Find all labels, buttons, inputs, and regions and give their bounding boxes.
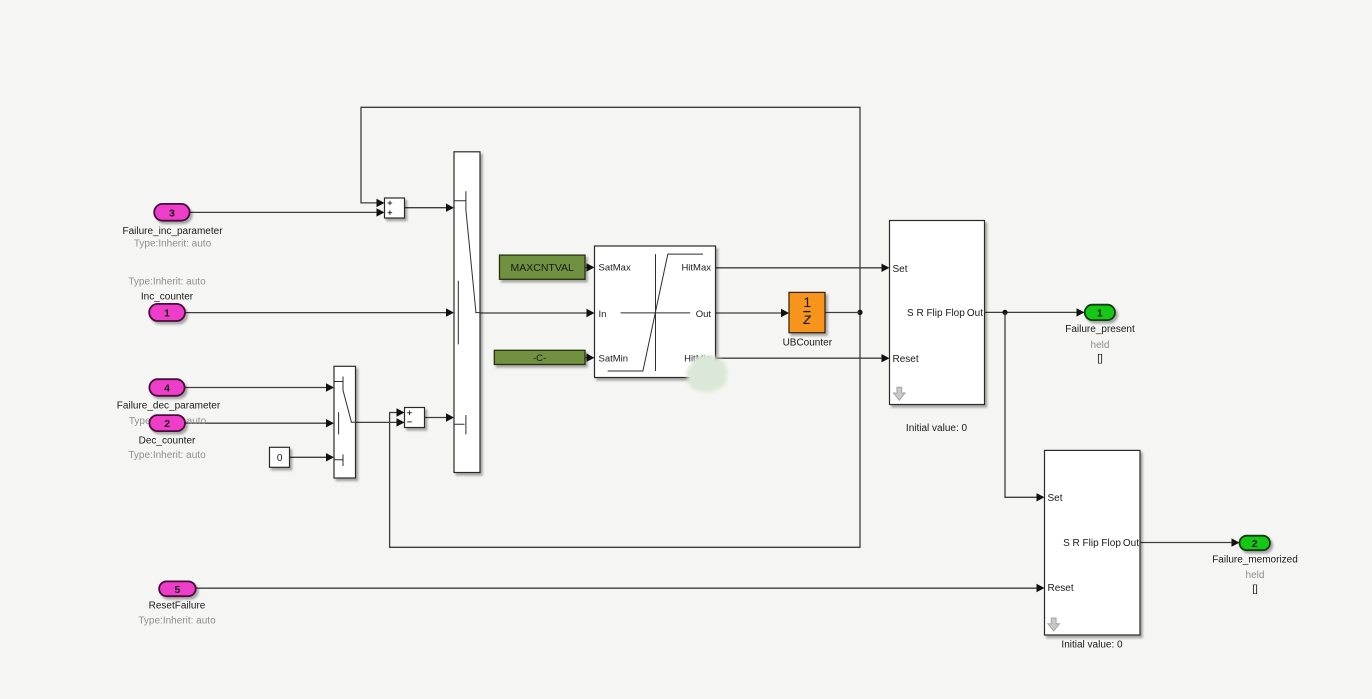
svg-text:2: 2 <box>164 418 170 430</box>
wire: Failure_inc_parameter to Sum1 input 2 <box>190 208 385 216</box>
wire: MAXCNTVAL to SatMax <box>585 263 595 271</box>
svg-text:SatMin: SatMin <box>599 354 629 365</box>
svg-text:In: In <box>599 309 607 320</box>
svg-text:Inc_counter: Inc_counter <box>141 291 194 302</box>
S R Flip Flop block 1 <box>890 221 985 434</box>
unit delay block UBCounter <box>783 292 833 348</box>
svg-text:5: 5 <box>174 584 180 596</box>
wire: Failure_dec_parameter to small Switch input 1 <box>185 383 334 391</box>
inport 2 <box>149 415 185 431</box>
svg-text:4: 4 <box>164 383 170 395</box>
svg-text:MAXCNTVAL: MAXCNTVAL <box>510 262 574 274</box>
constant block MAXCNTVAL <box>500 255 586 279</box>
wire: feedback bottom (UBCounter out to Sum2 input 1) <box>390 312 860 547</box>
watermark cloud blob <box>687 355 728 392</box>
svg-text:held: held <box>1246 570 1265 581</box>
wire: UBCounter out to junction <box>825 312 860 314</box>
svg-text:Failure_present: Failure_present <box>1065 324 1135 335</box>
wire: feedback top (UBCounter out to Sum1 input 1) <box>361 107 860 312</box>
svg-text:Initial value: 0: Initial value: 0 <box>906 423 968 434</box>
svg-text:S R Flip Flop: S R Flip Flop <box>907 308 965 319</box>
svg-text:[]: [] <box>1097 353 1103 364</box>
wire: Sum1 out to big Switch input 1 <box>405 204 455 212</box>
svg-text:0: 0 <box>277 453 283 464</box>
svg-text:1: 1 <box>803 294 811 310</box>
saturation dynamic block U1 <box>595 246 716 378</box>
svg-text:3: 3 <box>169 207 175 219</box>
svg-text:-C-: -C- <box>533 353 546 364</box>
svg-text:[]: [] <box>1252 584 1258 595</box>
constant block 0 <box>270 447 290 467</box>
switch block small (Switch2) <box>334 366 356 478</box>
svg-text:Type:Inherit: auto: Type:Inherit: auto <box>128 276 206 287</box>
inport 5 <box>159 581 196 596</box>
svg-text:Reset: Reset <box>1048 583 1074 594</box>
svg-text:Failure_dec_parameter: Failure_dec_parameter <box>117 401 221 412</box>
S R Flip Flop block 2 <box>1045 450 1141 650</box>
wire: SRFlipFlop2 Out to Failure_memorized <box>1140 538 1240 546</box>
svg-text:ResetFailure: ResetFailure <box>149 600 206 611</box>
inport 3 <box>154 204 189 221</box>
svg-text:Dec_counter: Dec_counter <box>139 436 196 447</box>
svg-text:Out: Out <box>967 308 983 319</box>
svg-text:SatMax: SatMax <box>599 263 631 274</box>
svg-text:Set: Set <box>893 264 908 275</box>
junction (flip flop 1 output node) <box>1002 310 1007 315</box>
wire: Sum2 out to big Switch input 3 <box>425 413 455 421</box>
svg-text:z: z <box>802 311 811 328</box>
svg-text:1: 1 <box>164 308 170 320</box>
inport 4 <box>149 379 184 396</box>
svg-text:Failure_inc_parameter: Failure_inc_parameter <box>122 226 223 237</box>
svg-text:1: 1 <box>1097 307 1103 319</box>
svg-text:Out: Out <box>696 309 712 320</box>
wire: SRFlipFlop1 Out to Failure_present <box>985 308 1085 316</box>
svg-text:Type:Inherit: auto: Type:Inherit: auto <box>128 450 206 461</box>
inport 1 <box>149 304 185 321</box>
svg-text:held: held <box>1091 340 1110 351</box>
svg-text:Type:Inherit: auto: Type:Inherit: auto <box>138 615 216 626</box>
svg-text:HitMax: HitMax <box>681 263 711 274</box>
wire: Constant 0 to small Switch input 3 <box>290 453 335 461</box>
switch block big (Switch1) <box>454 152 480 473</box>
outport 1 <box>1085 305 1115 320</box>
wire: Saturation Out to UBCounter <box>716 309 790 317</box>
sum block Sum2 <box>405 408 425 428</box>
svg-text:UBCounter: UBCounter <box>783 337 833 348</box>
svg-text:Failure_memorized: Failure_memorized <box>1212 555 1298 566</box>
svg-text:Set: Set <box>1048 493 1063 504</box>
constant block -C- <box>494 350 585 364</box>
svg-text:S R Flip Flop: S R Flip Flop <box>1063 538 1121 549</box>
wire: Dec_counter to small Switch control input <box>185 419 334 427</box>
wire: Inc_counter to big Switch control input <box>185 308 454 316</box>
wire: HitMax to SRFlipFlop1 Set <box>716 264 890 272</box>
svg-text:2: 2 <box>1252 538 1258 550</box>
wire: branch to SRFlipFlop2 Set <box>1005 312 1045 501</box>
sum block Sum1 <box>385 198 405 218</box>
svg-text:Reset: Reset <box>893 354 919 365</box>
wire: ResetFailure to SRFlipFlop2 Reset <box>196 584 1045 592</box>
svg-text:Out: Out <box>1123 538 1139 549</box>
junction (feedback node after UBCounter) <box>857 310 862 315</box>
wire: small Switch out to Sum2 minus input <box>356 418 405 426</box>
outport 2 <box>1240 536 1271 551</box>
wire: HitMin to SRFlipFlop1 Reset <box>716 354 890 362</box>
wire: big Switch out to Saturation In <box>480 309 595 317</box>
svg-text:Initial value: 0: Initial value: 0 <box>1061 640 1123 651</box>
wire: -C- to SatMin <box>585 354 595 362</box>
svg-text:Type:Inherit: auto: Type:Inherit: auto <box>134 238 212 249</box>
